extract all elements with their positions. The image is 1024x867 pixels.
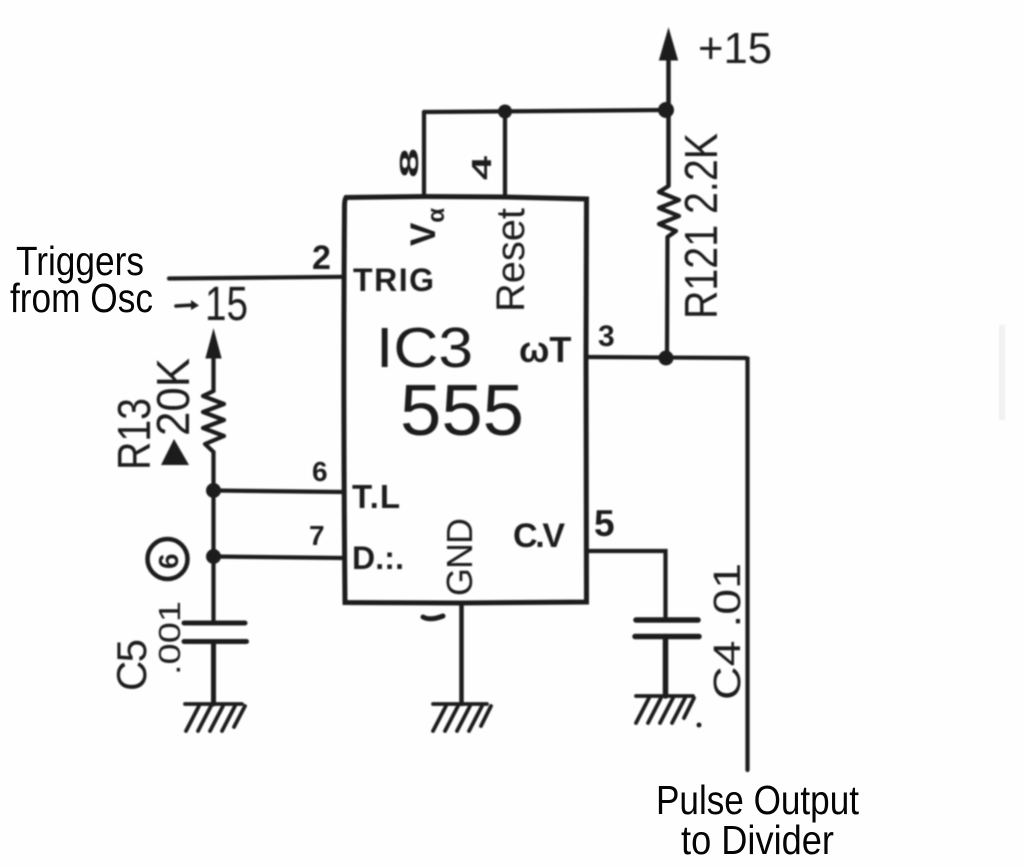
scan streak (decorative) [999, 325, 1005, 420]
svg-text:GND: GND [439, 518, 480, 596]
pin 1 number [423, 616, 443, 619]
svg-text:T.L: T.L [352, 478, 400, 515]
svg-text:C5: C5 [108, 639, 155, 691]
junction +15 bus [658, 102, 674, 118]
svg-text:D.:.: D.:. [352, 540, 404, 576]
resistor R12 zigzag [659, 186, 679, 358]
svg-text:2: 2 [312, 239, 331, 277]
svg-text:C.V: C.V [513, 517, 565, 555]
svg-text:6: 6 [153, 553, 184, 569]
wire pin6 [214, 491, 345, 493]
svg-text:TRIG: TRIG [353, 262, 434, 298]
svg-text:C4 .01: C4 .01 [707, 563, 749, 700]
svg-text:8: 8 [394, 148, 424, 178]
wire pin8 [422, 112, 426, 197]
IC IC3 555 timer box [344, 197, 587, 604]
wire R13 to C5 [211, 452, 215, 623]
triangle marker [161, 439, 189, 465]
wire pin4 [503, 112, 507, 197]
capacitor C5 [184, 623, 247, 704]
svg-text:15: 15 [205, 278, 248, 331]
wire pin7 [214, 557, 345, 559]
svg-text:.001: .001 [152, 601, 187, 675]
wire pin3 out [587, 357, 748, 770]
svg-text:R121 2.2K: R121 2.2K [675, 133, 727, 319]
resistor R13 arrow to +15 [206, 330, 221, 391]
svg-text:ωT: ωT [519, 329, 571, 370]
wire top bus [424, 110, 667, 112]
svg-text:+15: +15 [698, 24, 772, 73]
svg-text:to Divider: to Divider [681, 817, 834, 863]
svg-text:6: 6 [312, 456, 328, 487]
ground C5 [185, 704, 245, 731]
svg-text:20K: 20K [147, 358, 199, 436]
svg-text:7: 7 [309, 520, 325, 551]
junction pin6 [206, 483, 221, 498]
wire GND pin [459, 603, 464, 704]
power +15 top [660, 29, 678, 186]
capacitor C4 [635, 620, 699, 696]
svg-text:3: 3 [598, 320, 615, 353]
ground IC [433, 704, 491, 731]
svg-text:555: 555 [400, 371, 524, 451]
wire pin5 to C4 [587, 551, 666, 620]
power +15 left [176, 300, 199, 310]
svg-text:5: 5 [594, 503, 615, 544]
junction pin3 [659, 351, 674, 366]
junction pin4 bus [498, 105, 512, 119]
circled 6 marker [148, 539, 188, 579]
svg-text:from Osc: from Osc [10, 275, 153, 321]
svg-text:4: 4 [466, 155, 497, 180]
wire pin2 [169, 277, 345, 279]
resistor R13 zigzag [203, 391, 224, 452]
ground C4 [636, 696, 702, 728]
svg-text:Reset: Reset [489, 208, 533, 312]
junction pin7 [206, 549, 221, 564]
